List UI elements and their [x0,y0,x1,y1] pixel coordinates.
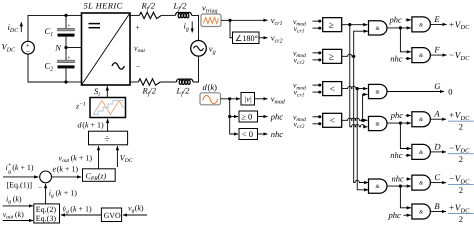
and gate G1 [369,21,388,35]
predictor block Eq2 Eq3 [34,204,60,223]
svg-text:(k): (k) [13,195,22,204]
svg-text:+: + [135,23,140,32]
and gate G3 [369,84,388,98]
wire ge0 to phc [258,116,268,118]
svg-text:(k + 1): (k + 1) [70,205,92,214]
bus wire L2 cmp2 up to gate1, down to gate5 [354,31,368,180]
wire Lf top to vg [192,15,199,40]
wire nhc to gate D [406,154,411,156]
node G1 out branch [399,26,402,29]
inductor Lf/2 top [173,1,192,18]
svg-text:F: F [433,45,440,55]
controller block CPR [83,169,116,182]
and gate G5 [369,179,387,193]
svg-text:2: 2 [459,154,463,164]
modulation box d(k) [200,82,221,105]
and gate F [412,48,431,63]
svg-text:2: 2 [459,214,463,224]
svg-text:≥ 0: ≥ 0 [241,112,252,122]
node cmp2 bus tap [352,55,355,58]
wire G1 out to gate E [387,27,411,29]
wire GVO to Eq23 [61,214,102,216]
svg-text:*: * [8,163,11,169]
svg-text:2: 2 [459,122,463,132]
node G5 out branch [399,185,402,188]
abs block |v| [241,93,255,106]
wire vtriag to vcr1 [221,19,268,21]
wire CPR to divider vout(k+1) [98,146,100,169]
and gate E [412,17,431,32]
wire VDC to divider [116,146,118,167]
wire A output [430,118,446,120]
source vg [191,41,216,57]
observer block GVO [101,208,121,222]
wire phc to gate B [404,214,411,216]
wire Lf to Rf bottom [160,81,176,83]
svg-text:C: C [434,172,440,182]
svg-text:+: + [67,55,71,61]
wire D output [430,151,446,153]
resistor Rf/2 bottom [138,79,160,98]
and gate B [412,204,431,219]
node cmp1 bus tap [348,23,351,26]
divider block [89,131,128,145]
svg-text:÷: ÷ [104,134,110,145]
node top rail junction [64,14,67,17]
svg-text:(k): (k) [135,204,144,213]
svg-text:phc: phc [388,210,402,220]
wire converter to Rf top [130,14,139,16]
wire F output [430,54,446,56]
wire top rail to converter [66,14,82,16]
svg-text:−: − [136,63,141,72]
wire cmp4 out to gate4 [342,118,368,120]
wire dk to abs [221,98,241,100]
wire C output [430,182,446,184]
svg-text:nhc: nhc [271,129,284,139]
wire 180 to vcr2 [259,37,268,39]
svg-text:0: 0 [448,87,452,97]
bus wire G4 down to gate D [400,123,411,148]
svg-text:G: G [434,81,441,91]
wire nhc to gate F [406,58,411,60]
svg-text:<: < [330,117,335,127]
svg-text:<: < [330,85,335,95]
node cmp4 bus tap [361,119,364,122]
sign block <0 [239,129,258,140]
svg-text:+: + [67,24,71,30]
wire bottom rail to converter [66,81,82,83]
wire G4 out to gate A [387,122,411,124]
wire dk down2 [230,117,238,135]
svg-text:E: E [433,14,440,24]
wire nhc to gate C [407,178,411,180]
wire lt0 to nhc [258,133,268,135]
node bottom rail junction [64,80,67,83]
svg-text:5L HERIC: 5L HERIC [84,0,123,10]
sign block >=0 [239,111,258,122]
wire down to 180 block [230,20,233,37]
node G4 out branch [399,122,402,125]
wire ig(k) input [3,205,33,207]
carrier box vtriag [201,3,221,27]
bus wire L4 cmp4 up to gate3 [363,94,368,120]
and gate A [412,112,431,127]
svg-text:nhc: nhc [392,174,405,184]
svg-text:(k): (k) [15,210,24,219]
bus wire L3 cmp3 down to gate5 [357,89,368,190]
and gate D [412,144,431,159]
inductor Lf/2 bottom [176,79,194,97]
svg-text:(k + 1): (k + 1) [12,163,34,172]
svg-text:nhc: nhc [390,150,403,160]
summing junction [40,171,52,183]
wire E output [430,23,446,25]
svg-text:(k + 1): (k + 1) [71,154,93,163]
wire cmp2 out to bus L2 [342,54,354,56]
wire G output [387,91,444,93]
wire cmp3 out to gate3 [342,86,368,88]
svg-text:B: B [434,201,440,211]
svg-text:Eq.(3): Eq.(3) [36,214,57,223]
svg-text:nhc: nhc [390,53,403,63]
and gate G4 [369,116,388,130]
svg-text:phc: phc [389,15,403,25]
delay block z-1 with waveform [75,98,126,118]
wire abs to vmod [255,98,268,100]
node N [54,43,81,53]
svg-text:−: − [38,184,42,192]
wire sum to CPR e(k+1) [52,176,82,178]
wire phc to gate A [406,115,411,117]
converter 5L HERIC [82,0,131,85]
capacitor C1 [45,15,75,47]
wire divider to z-1 d(k+1) [107,119,109,131]
svg-text:phc: phc [270,112,284,122]
and gate C [412,175,431,190]
current arrow ig [184,21,193,33]
wire dk down [229,99,231,117]
wire phc to gate E [406,19,411,21]
svg-text:D: D [433,141,441,151]
wire B output [430,211,446,213]
svg-text:[Eq.(1)]: [Eq.(1)] [7,181,33,190]
wire to ge0 [230,116,238,118]
svg-text:∠180°: ∠180° [235,34,258,43]
comparator vmod>=vcr2 [293,49,342,67]
node dk branch1 [228,97,231,100]
wire Rf to Lf top [161,14,175,16]
phase block 180 [233,32,260,44]
wire vg(k) input [123,214,147,216]
source VDC [2,41,35,56]
wire vg bottom [193,56,199,82]
comparator vmod>=vcr1 [293,17,342,35]
svg-text:≥: ≥ [329,53,334,63]
svg-text:2: 2 [459,185,463,195]
node dk branch2 [228,115,231,118]
capacitor C2 [45,48,75,83]
bus wire L1 cmp1 down to gate4 [349,25,351,125]
wire feedback ig(k+1) [45,184,47,204]
svg-text:≥: ≥ [329,21,334,31]
svg-text:(k + 1): (k + 1) [56,189,78,198]
svg-text:(k): (k) [208,82,218,92]
resistor Rf/2 top [139,1,161,19]
svg-text:(k + 1): (k + 1) [57,165,79,174]
comparator vmod<vcr2 [293,112,342,130]
svg-text:Eq.(2): Eq.(2) [36,205,57,214]
wire G5 out to gate C [387,185,411,187]
wire vout(k) input [3,220,33,222]
wire ig* reference input [3,176,38,178]
bus wire G1 down to gate F [400,28,411,52]
wire cmp1 out to gate1 [342,24,368,26]
svg-text:GVO: GVO [104,211,121,220]
svg-text:phc: phc [390,110,404,120]
svg-text:< 0: < 0 [242,129,253,139]
wire VDC top to rail [28,15,66,41]
svg-text:A: A [433,109,440,119]
node cmp3 bus tap [356,87,359,90]
wire VDC bottom to rail [28,54,66,82]
svg-text:|v|: |v| [244,95,251,104]
bus wire G5 down to gate B [400,186,411,208]
wire z-1 to converter Si [106,86,108,97]
current arrow iDC [8,22,22,34]
node vcr1 branch [228,19,231,22]
wire Rf bottom to converter [130,81,138,83]
svg-text:(k + 1): (k + 1) [82,121,104,130]
comparator vmod<vcr1 [293,81,342,99]
svg-text:g: g [8,169,11,175]
